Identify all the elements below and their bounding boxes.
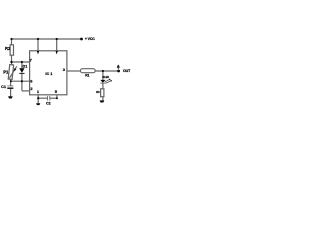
svg-text:A: A [117, 63, 120, 68]
svg-text:R1: R1 [85, 74, 89, 78]
svg-text:OUT: OUT [123, 69, 131, 73]
svg-text:C2: C2 [46, 102, 51, 106]
svg-text:P1: P1 [3, 69, 9, 74]
svg-text:6: 6 [30, 78, 33, 83]
svg-text:C1: C1 [1, 84, 7, 89]
svg-text:1: 1 [37, 89, 40, 94]
svg-text:R2: R2 [5, 46, 11, 51]
svg-text:DLED: DLED [102, 76, 109, 79]
svg-text:IC 1: IC 1 [45, 72, 52, 76]
svg-text:2: 2 [30, 86, 33, 91]
svg-text:D1: D1 [23, 64, 28, 68]
svg-text:+ VCC: + VCC [85, 37, 95, 41]
svg-text:3: 3 [63, 67, 66, 72]
svg-text:5: 5 [55, 89, 58, 94]
svg-text:7: 7 [30, 58, 33, 63]
svg-text:R3: R3 [96, 90, 100, 94]
